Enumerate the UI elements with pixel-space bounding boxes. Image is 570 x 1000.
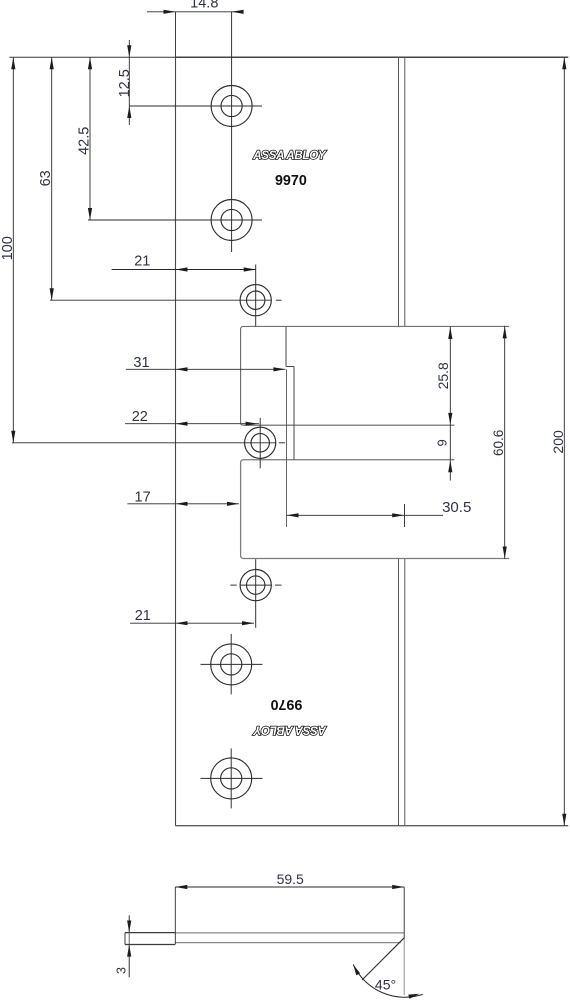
- svg-text:17: 17: [135, 489, 151, 505]
- hole H3 inner circle: [221, 654, 242, 675]
- svg-text:21: 21: [134, 253, 150, 269]
- svg-text:ASSA ABLOY: ASSA ABLOY: [252, 149, 327, 162]
- wire - bend line lower (right of pair): [404, 559, 406, 826]
- ext line 30.5 left at x=286.5: [286, 370, 288, 528]
- dim line 12.5 upper stub: [128, 40, 130, 57]
- side view - top edge left dark segment: [125, 932, 175, 934]
- arrow 42.5 bottom: [88, 208, 92, 220]
- centerline - vertical through holes H1 H2 (also ext for 14.8): [231, 12, 233, 252]
- wire - plate top edge: [176, 56, 569, 58]
- wire - bend line lower (left of pair): [398, 559, 400, 826]
- wire - latch step horizontal edge at y=366.5: [286, 366, 294, 368]
- hole H1 inner circle: [221, 95, 242, 116]
- arrow 31 left: [176, 367, 188, 371]
- side view - bottom edge left dark segment: [125, 944, 175, 946]
- hole H4 outer circle: [211, 758, 252, 799]
- arrow 63 top: [50, 57, 54, 69]
- wire - plate left edge: [175, 57, 177, 825]
- centerline dash right of S2: [279, 442, 285, 444]
- centerline - horizontal through H3: [201, 663, 263, 665]
- extension line - plate top edge extended left for 12.5/42.5/63/100 dims: [9, 56, 175, 58]
- arrow 200 bottom: [562, 814, 566, 826]
- dim arc 45deg: [353, 965, 423, 998]
- arrow 17 left: [176, 502, 188, 506]
- dim line 100: [12, 57, 14, 443]
- arrow 17 right: [227, 502, 239, 506]
- centerline - horizontal through H2 (ext for 42.5): [88, 219, 262, 221]
- svg-text:9: 9: [435, 439, 450, 446]
- svg-text:42.5: 42.5: [77, 127, 93, 155]
- side view - underside line main (gray): [175, 942, 400, 944]
- arrow 30.5 right: [392, 513, 404, 517]
- centerline - vertical through H3: [230, 634, 232, 695]
- dim line 59.5: [175, 886, 404, 888]
- ext line 59.5 left (crosses the strip): [174, 887, 176, 944]
- dim line 12.5 middle: [128, 57, 130, 106]
- svg-text:60.6: 60.6: [491, 430, 506, 456]
- svg-text:21: 21: [135, 608, 151, 624]
- arrow 14.8 left (outside pointing right): [164, 10, 176, 14]
- arrow 30.5 left: [287, 513, 299, 517]
- wire - latch step vertical edge at x=286: [285, 326, 287, 366]
- arrow 25.8 top: [448, 327, 452, 339]
- dim line 14.8: [147, 11, 244, 13]
- svg-text:100: 100: [0, 236, 16, 260]
- arrow 45deg arc upper end: [353, 965, 360, 976]
- hole S3 outer circle: [240, 570, 271, 601]
- arrow 60.6 top: [503, 326, 507, 338]
- dim line 30.5 with leader to text: [287, 514, 444, 516]
- dim line 12.5 lower stub: [128, 106, 130, 125]
- dim line 22: [125, 423, 259, 425]
- centerline dash right of S1: [276, 299, 282, 301]
- arrow 31 right: [273, 367, 285, 371]
- hole S1 outer circle: [240, 285, 271, 316]
- centerline dash left of S3: [230, 584, 237, 586]
- centerline - vertical through S1 (ext for 21): [255, 265, 257, 327]
- wire - plate bottom edge: [176, 825, 569, 827]
- svg-text:31: 31: [133, 355, 149, 371]
- svg-text:30.5: 30.5: [442, 499, 471, 516]
- hole S1 inner circle: [247, 291, 265, 309]
- arrow 22 left: [176, 422, 188, 426]
- dim line 60.6 (doubles as box right edge): [504, 326, 506, 559]
- strike box outline - top edge, left edge upper segment, slot top line: [241, 326, 510, 425]
- ext line 59.5 right: [403, 887, 405, 939]
- svg-text:14.8: 14.8: [190, 0, 218, 12]
- dim line 3 crossing strip: [128, 932, 130, 944]
- hole H2 outer circle: [211, 200, 252, 241]
- centerline - vertical through S3 (ext for lower 21): [255, 559, 257, 628]
- svg-text:59.5: 59.5: [277, 871, 304, 887]
- arrow 42.5 top: [88, 57, 92, 69]
- svg-text:200: 200: [550, 430, 566, 454]
- dim line 25.8 / 9 shared vertical: [449, 326, 451, 480]
- dim line 42.5: [89, 57, 91, 220]
- wire - 45deg bent tip diagonal: [362, 938, 404, 980]
- svg-text:9970: 9970: [270, 696, 302, 712]
- hole S2 outer circle: [245, 427, 276, 458]
- arrow 45deg arc lower end: [408, 994, 419, 999]
- arrow 60.6 bottom: [503, 547, 507, 559]
- svg-text:63: 63: [38, 170, 54, 186]
- arrow 25.8 bottom / 9 top (shared, pointing down): [448, 413, 452, 425]
- wire - bend line upper (left of pair): [398, 57, 400, 326]
- arrow 100 top: [11, 57, 15, 69]
- dim line 21 lower: [130, 622, 254, 624]
- dim line 21 upper: [112, 269, 256, 271]
- centerline - vertical through S2 (ext for 22): [259, 418, 261, 469]
- arrow 14.8 right (outside pointing left): [232, 10, 244, 14]
- arrow 63 bottom: [50, 288, 54, 300]
- arrow 21 lower left: [176, 621, 188, 625]
- side view - top edge main (gray): [175, 932, 404, 934]
- arrow 22 right: [246, 422, 258, 426]
- ext line 14.8 left (plate edge extended up): [175, 12, 177, 58]
- centerline - horizontal through H1 (ext for 12.5): [129, 105, 262, 107]
- strike box outline - slot bottom line, left edge lower segment, bottom edge: [241, 460, 510, 559]
- svg-text:22: 22: [132, 409, 148, 425]
- arrow 200 top: [562, 57, 566, 69]
- svg-text:45°: 45°: [375, 976, 396, 992]
- arrow 3 bottom (outside pointing up): [127, 945, 131, 957]
- arrow 21 upper right: [244, 267, 256, 271]
- hole H1 outer circle: [211, 86, 252, 127]
- centerline - horizontal through S1 (ext for 63): [50, 299, 272, 301]
- wire - bend line upper (right of pair): [404, 57, 406, 326]
- hole S3 inner circle: [247, 576, 265, 594]
- ext line 30.5 right tick: [404, 504, 406, 527]
- centerline - vertical through H4: [230, 748, 232, 808]
- centerline dash right of S3: [275, 584, 282, 586]
- dim line 3 upper stub: [128, 915, 130, 932]
- hole S2 inner circle: [251, 434, 269, 452]
- hole H3 outer circle: [211, 644, 252, 685]
- wire - latch opening left edge at x=294: [293, 367, 295, 460]
- arrow 12.5 top (outside pointing down): [127, 45, 131, 57]
- svg-text:25.8: 25.8: [435, 362, 451, 389]
- ext line 45deg vertical: [403, 938, 405, 995]
- dim line 200: [563, 57, 565, 825]
- arrow 21 lower right: [242, 621, 254, 625]
- arrow 59.5 left: [175, 885, 187, 889]
- centerline - horizontal through S2 (ext for 100): [12, 442, 276, 444]
- dim line 3 lower stub: [128, 945, 130, 978]
- svg-text:12.5: 12.5: [117, 69, 133, 97]
- dim line 31: [126, 368, 286, 370]
- svg-text:3: 3: [115, 967, 129, 974]
- dim line 63: [51, 57, 53, 300]
- arrow 59.5 right: [392, 885, 404, 889]
- arrow 3 top (outside pointing down): [127, 921, 131, 933]
- dim line 17: [127, 503, 239, 505]
- hole H2 inner circle: [221, 209, 242, 230]
- arrow 9 bottom (outside pointing up): [448, 460, 452, 472]
- arrow 100 bottom: [11, 431, 15, 443]
- svg-text:ASSA ABLOY: ASSA ABLOY: [252, 724, 327, 737]
- centerline - horizontal through H4: [201, 777, 263, 779]
- side view - left end face: [124, 933, 126, 945]
- centerline - horizontal through S3: [241, 584, 272, 586]
- svg-text:9970: 9970: [275, 173, 307, 189]
- arrow 21 upper left: [176, 267, 188, 271]
- arrow 12.5 bottom (outside pointing up): [127, 106, 131, 118]
- hole H4 inner circle: [221, 768, 242, 789]
